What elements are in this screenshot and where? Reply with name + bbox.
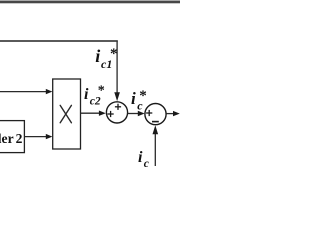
label i_c* <box>131 88 147 113</box>
box Controller 2 (cut off at left) <box>0 121 24 153</box>
arrowhead into multiplier input 2 <box>46 134 53 139</box>
wire: controller 2 to multiplier <box>24 136 46 138</box>
top figure border band <box>0 0 180 4</box>
wire: input line into multiplier top-left <box>0 91 47 93</box>
wire: i_c1* horizontal line from left edge <box>0 40 118 42</box>
arrowhead into summer 2 left <box>138 111 145 116</box>
arrowhead into summer 1 left <box>99 111 106 116</box>
summer 2 minus (bottom input) <box>152 121 159 123</box>
wire: summer 2 output <box>166 113 173 115</box>
svg-text:*: * <box>98 84 105 99</box>
svg-text:*: * <box>139 88 147 104</box>
wire: i_c feedback vertical line <box>154 134 156 167</box>
arrowhead into summer 2 bottom <box>153 125 159 134</box>
multiplier X symbol <box>60 105 71 122</box>
svg-text:i: i <box>131 89 136 108</box>
svg-text:*: * <box>110 46 118 62</box>
label i_c1* <box>95 46 117 71</box>
arrowhead into summer 1 top <box>114 92 120 101</box>
arrowhead output <box>173 111 180 116</box>
svg-text:2: 2 <box>16 131 23 146</box>
wire: multiplier output to summer 1 <box>81 112 100 114</box>
summer 2 plus (left input) <box>146 110 152 116</box>
summer 1 circle <box>106 102 127 123</box>
multiplier box <box>53 79 81 149</box>
svg-text:c: c <box>144 158 149 170</box>
svg-text:ller: ller <box>0 131 14 146</box>
svg-text:i: i <box>95 46 100 66</box>
svg-text:i: i <box>138 149 143 166</box>
svg-text:i: i <box>84 86 89 103</box>
summer 2 circle <box>145 104 166 125</box>
wire: i_c1* vertical drop to summer 1 <box>116 41 118 93</box>
label i_c <box>138 149 149 170</box>
summer 1 plus (left input) <box>108 111 114 117</box>
label i_c2* <box>84 84 105 108</box>
arrowhead into multiplier input 1 <box>46 89 53 94</box>
summer 1 plus (top input) <box>115 104 121 110</box>
wire: summer 1 to summer 2 <box>128 113 139 115</box>
